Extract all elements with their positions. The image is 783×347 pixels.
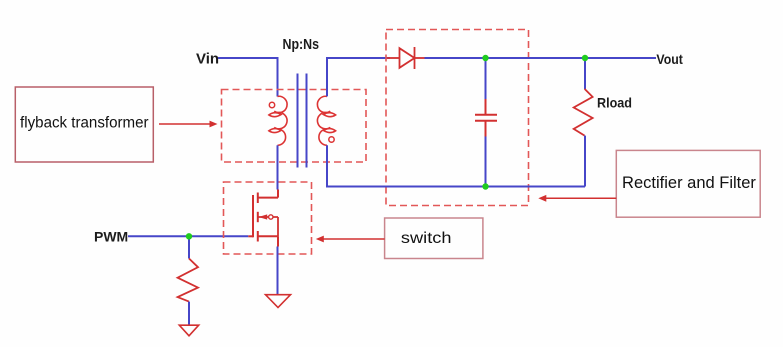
wire resistor R1 to ground [188,302,190,325]
transistor Q1 body stub with arrow [258,214,278,236]
transformer T1 core [298,74,307,168]
callout box flyback transformer [15,87,153,162]
transformer T1 primary polarity dot [269,102,274,107]
wire Rload top branch [584,58,586,89]
ground (PWM resistor) [179,325,198,336]
wire primary bottom to switch drain [277,145,279,189]
transistor Q1 body circle [269,215,273,219]
transistor Q1 channel segments [257,193,259,242]
callout box Rectifier and Filter [616,150,760,217]
wire Rload bottom branch [584,136,586,187]
svg-text:Rload: Rload [597,95,632,111]
resistor R1 [178,259,198,302]
svg-text:flyback transformer: flyback transformer [20,115,149,132]
callout box switch [385,218,483,259]
transistor Q1 gate bar [252,195,254,237]
junction capacitor bottom node [482,183,488,189]
wire capacitor top branch [485,58,487,99]
transformer T1 dashed outline [222,90,367,163]
transformer T1 secondary winding [317,96,335,145]
svg-text:PWM: PWM [94,229,128,245]
transformer T1 primary winding [269,96,287,145]
junction PWM-resistor node [186,233,192,239]
svg-text:Np:Ns: Np:Ns [283,36,320,53]
diode D1 [387,47,425,69]
arrow switch callout [316,236,385,243]
rectifier and filter dashed outline [386,30,529,206]
junction Rload top node [582,55,588,61]
svg-text:switch: switch [401,230,452,247]
transformer T1 secondary polarity dot [329,137,334,142]
wire PWM to gate [128,235,248,237]
wire Vin to transformer primary [218,58,278,97]
svg-text:Vin: Vin [196,51,219,68]
switch dashed outline [224,182,312,254]
wire secondary top to diode [327,58,390,96]
svg-text:Vout: Vout [656,51,683,67]
wire diode to Vout [425,57,657,59]
ground (switch source) [266,295,291,308]
svg-text:Rectifier and Filter: Rectifier and Filter [622,174,756,192]
resistor Rload [574,89,593,136]
transistor Q1 gate lead [248,235,253,237]
transistor Q1 source stub [258,236,278,246]
arrow flyback transformer callout [159,121,218,128]
wire source to ground [277,247,279,296]
transistor Q1 drain stub [258,190,278,198]
wire secondary bottom rail [327,145,585,186]
wire capacitor bottom branch [485,137,487,187]
resistor R1 top lead wire [188,236,190,258]
arrow Rectifier and Filter callout [538,195,616,202]
capacitor C1 [475,99,497,137]
junction diode-capacitor node [482,55,488,61]
